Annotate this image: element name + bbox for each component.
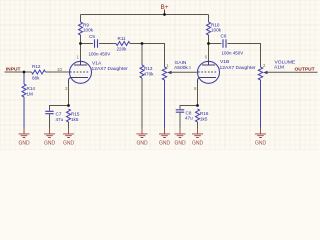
svg-text:R13: R13 xyxy=(144,66,153,71)
label R12 xyxy=(32,64,41,69)
svg-text:V1A: V1A xyxy=(92,61,102,67)
junction V1B plate node xyxy=(207,42,210,45)
junction input node xyxy=(23,71,26,74)
V1A plate xyxy=(74,61,87,65)
svg-text:INPUT: INPUT xyxy=(6,66,21,72)
svg-text:R16: R16 xyxy=(200,111,209,116)
junction node A (R11/R13/GAIN) xyxy=(141,42,144,45)
pin number 4 (V1B grid) xyxy=(189,65,192,70)
svg-text:B+: B+ xyxy=(161,4,169,11)
svg-text:10: 10 xyxy=(57,67,62,72)
wire R13 column to GND xyxy=(141,44,143,129)
label 12AX7 Daughter (V1A) xyxy=(92,66,129,72)
label C7 xyxy=(56,111,62,116)
label 1k5 xyxy=(71,117,79,122)
resistor R10 xyxy=(207,22,211,35)
wire V1B plate column (rail-R10-plate) xyxy=(208,15,210,62)
label 47u xyxy=(185,116,193,121)
label 47u xyxy=(56,117,64,122)
wire GAIN pot bottom to GND xyxy=(164,80,166,129)
label 470k xyxy=(144,71,155,76)
label A1M xyxy=(274,65,284,71)
junction dot B+ on rail xyxy=(163,13,166,16)
svg-text:1M: 1M xyxy=(27,91,34,96)
wire input node down to R14 xyxy=(23,72,25,84)
label C8 xyxy=(186,110,192,115)
label 1k5 xyxy=(200,116,208,121)
label 100n 450V (C6) xyxy=(222,51,244,56)
pin number 3 (V1A cathode) xyxy=(65,86,68,91)
label C5 xyxy=(89,34,95,39)
svg-text:GND: GND xyxy=(192,140,204,146)
label 12AX7 Daughter (V1B) xyxy=(220,65,257,71)
svg-text:GND: GND xyxy=(63,140,75,146)
resistor R11 xyxy=(116,42,130,46)
resistor R15 xyxy=(67,109,71,122)
wire V1B cathode to junction xyxy=(197,84,199,106)
label 100k xyxy=(83,28,94,33)
ground (R14) xyxy=(18,129,30,147)
potentiometer VOLUME body xyxy=(258,67,262,80)
svg-text:GND: GND xyxy=(136,140,148,146)
wire C6 to VOLUME pot top xyxy=(228,44,261,68)
label A500k xyxy=(174,65,188,71)
svg-text:100k: 100k xyxy=(211,28,222,33)
pin number 8 (V1B cathode) xyxy=(194,86,197,91)
potentiometer GAIN body xyxy=(162,67,166,80)
svg-text:100n 450V: 100n 450V xyxy=(89,51,111,56)
ground (R16) xyxy=(192,129,204,147)
svg-text:47u: 47u xyxy=(185,116,193,121)
ground (C7) xyxy=(44,129,56,147)
pin number 2 (VOLUME wiper) xyxy=(263,63,266,68)
label V1B xyxy=(220,59,229,65)
wire V1A cathode to junction xyxy=(68,84,70,106)
label 100k xyxy=(211,28,222,33)
svg-text:R12: R12 xyxy=(32,64,41,69)
wire R11 to node A xyxy=(130,43,142,45)
svg-text:R15: R15 xyxy=(71,111,80,116)
capacitor C8 xyxy=(176,110,184,112)
V1B plate xyxy=(202,61,215,65)
ground (C8) xyxy=(174,129,186,147)
svg-text:GND: GND xyxy=(18,140,30,146)
svg-text:C5: C5 xyxy=(89,34,95,39)
resistor R9 xyxy=(79,22,83,35)
svg-text:GND: GND xyxy=(174,140,186,146)
svg-text:R11: R11 xyxy=(118,36,127,41)
wire VOLUME wiper to OUTPUT xyxy=(268,71,318,73)
svg-text:GND: GND xyxy=(159,140,171,146)
power port B+ xyxy=(161,4,169,15)
ground (R13) xyxy=(136,129,148,147)
svg-text:12AX7 Daughter: 12AX7 Daughter xyxy=(92,66,129,72)
net label OUTPUT xyxy=(295,67,315,73)
svg-text:A1M: A1M xyxy=(274,65,284,71)
ground (GAIN) xyxy=(159,129,171,147)
junction V1A cathode node xyxy=(67,104,70,107)
wire C8 to GND xyxy=(179,113,181,129)
wire GAIN wiper to V1B grid pin 4 xyxy=(172,71,198,73)
resistor R16 xyxy=(196,109,200,122)
wire B+ rail xyxy=(81,14,209,16)
wire V1B plate node to C6 xyxy=(209,43,222,45)
svg-text:100n 450V: 100n 450V xyxy=(222,51,244,56)
label 68k xyxy=(32,75,40,80)
svg-text:OUTPUT: OUTPUT xyxy=(295,67,315,73)
V1B grid xyxy=(198,71,217,73)
wire junction to C8 xyxy=(180,106,198,110)
capacitor C6 xyxy=(223,39,226,47)
label 1M xyxy=(27,91,34,96)
pin number 1 (V1A plate) xyxy=(77,55,80,60)
op-amp V1A envelope (triode) xyxy=(70,61,92,83)
wire V1A plate node to C5 xyxy=(81,43,94,45)
wire R15 to GND xyxy=(68,122,70,129)
pin number 6 (V1B plate) xyxy=(205,55,208,60)
label R13 xyxy=(144,66,153,71)
resistor R14 xyxy=(22,84,26,97)
capacitor C5 xyxy=(95,39,98,47)
svg-text:47u: 47u xyxy=(56,117,64,122)
wire R16 to GND xyxy=(197,122,199,129)
pin number 1 (GAIN wiper) xyxy=(166,63,169,68)
potentiometer GAIN wiper arrow xyxy=(167,71,171,75)
pin number 10 (V1A grid) xyxy=(57,67,62,72)
wire INPUT to R12 xyxy=(5,71,32,73)
label VOLUME xyxy=(275,60,296,66)
wire R12 to V1A grid pin 10 xyxy=(46,71,70,73)
svg-text:470k: 470k xyxy=(144,71,155,76)
wire C7 to GND xyxy=(49,114,51,129)
svg-text:GND: GND xyxy=(255,140,267,146)
label R14 xyxy=(27,86,36,91)
capacitor C7 xyxy=(45,111,53,113)
V1A grid xyxy=(70,71,89,73)
wire V1A plate column (rail-R9-plate) xyxy=(80,15,82,62)
svg-text:100k: 100k xyxy=(83,28,94,33)
net label INPUT xyxy=(6,66,21,72)
junction V1B cathode node xyxy=(196,104,199,107)
label 220k xyxy=(117,46,128,51)
svg-text:68k: 68k xyxy=(32,75,40,80)
ground (VOLUME) xyxy=(255,129,267,147)
wire VOLUME pot bottom to GND xyxy=(260,80,262,129)
junction V1A plate node xyxy=(79,42,82,45)
label R15 xyxy=(71,111,80,116)
V1B cathode xyxy=(198,78,217,84)
svg-text:R14: R14 xyxy=(27,86,36,91)
svg-text:C7: C7 xyxy=(56,111,62,116)
label V1A xyxy=(92,61,102,67)
wire C5 to R11 xyxy=(99,43,116,45)
svg-text:C6: C6 xyxy=(221,34,227,39)
op-amp V1B envelope (triode) xyxy=(198,61,220,83)
svg-text:V1B: V1B xyxy=(220,59,229,65)
wire R14 to GND xyxy=(23,97,25,129)
svg-text:GND: GND xyxy=(44,140,56,146)
svg-text:220k: 220k xyxy=(117,46,128,51)
label R11 xyxy=(118,36,127,41)
resistor R13 xyxy=(140,65,144,78)
label R9 xyxy=(83,22,89,27)
ground (R15) xyxy=(63,129,75,147)
wire node A to GAIN pot top xyxy=(142,44,165,68)
label 100n 450V (C5) xyxy=(89,51,111,56)
label GAIN xyxy=(175,60,187,66)
V1A cathode xyxy=(69,78,89,84)
wire VOLUME pot top lead xyxy=(260,54,262,68)
label R16 xyxy=(200,111,209,116)
wire junction to C7 xyxy=(50,106,69,111)
resistor R12 xyxy=(32,70,46,74)
label R10 xyxy=(211,22,220,27)
potentiometer VOLUME wiper arrow xyxy=(263,71,267,75)
svg-text:A500k: A500k xyxy=(174,65,188,71)
svg-text:1k5: 1k5 xyxy=(71,117,79,122)
svg-text:1k5: 1k5 xyxy=(200,116,208,121)
label C6 xyxy=(221,34,227,39)
svg-text:12AX7 Daughter: 12AX7 Daughter xyxy=(220,65,257,71)
